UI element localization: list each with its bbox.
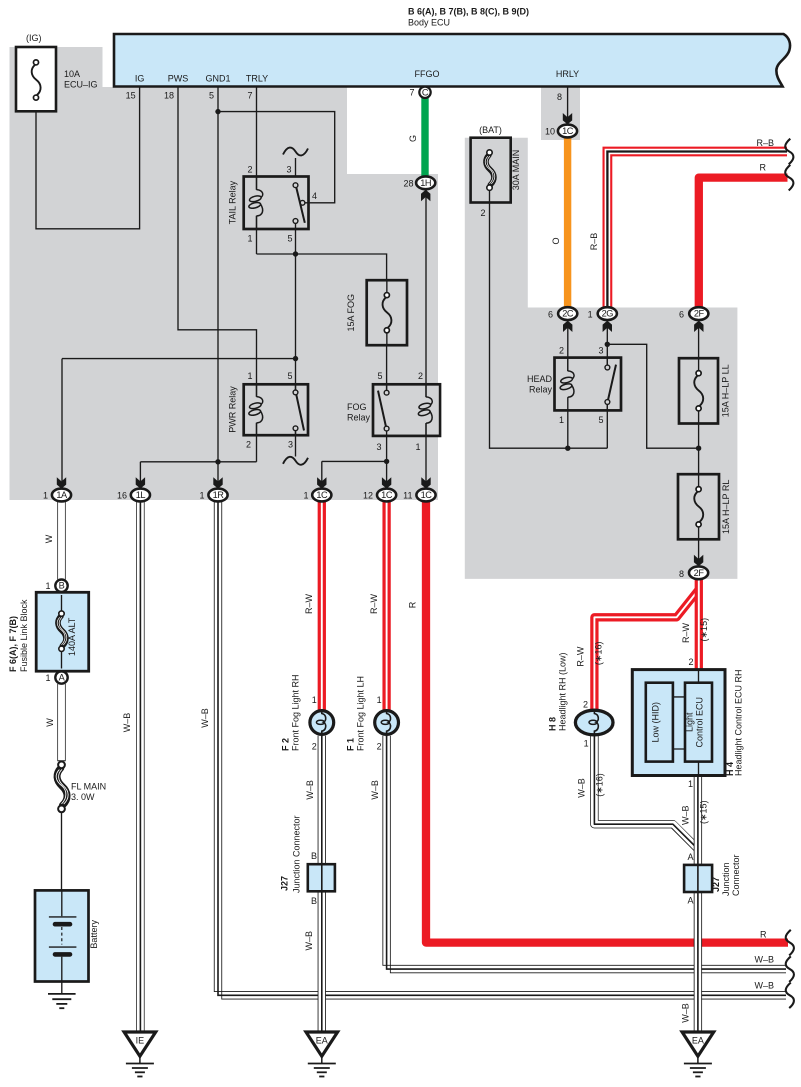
svg-text:(∗16): (∗16)	[594, 642, 604, 666]
svg-text:5: 5	[287, 371, 292, 381]
fuse 15A H-LP RL	[678, 474, 719, 539]
svg-text:A: A	[687, 852, 693, 862]
junction connector J27 right	[684, 865, 712, 892]
svg-text:Junction Connector: Junction Connector	[292, 815, 302, 893]
svg-text:Relay: Relay	[529, 385, 553, 395]
svg-text:8: 8	[557, 92, 562, 102]
shield region HRLY strip	[541, 87, 580, 140]
svg-text:1: 1	[247, 371, 252, 381]
fuse 30A MAIN	[471, 138, 511, 203]
connector 2F-8 with arrow	[689, 555, 708, 579]
wire GND1 branch to TAIL relay pin4	[218, 112, 335, 203]
relay FOG	[373, 384, 440, 436]
svg-text:1: 1	[377, 695, 382, 705]
break symbol R right edge bottom	[786, 930, 794, 956]
fuse 10A ECU-IG	[16, 47, 56, 111]
relay PWR	[244, 384, 308, 435]
svg-text:Body ECU: Body ECU	[408, 18, 450, 28]
squiggle break below PWR pin3	[283, 457, 308, 465]
wire PWS pin18 to PWR relay pin1	[178, 87, 257, 397]
svg-text:11: 11	[403, 491, 412, 501]
connector 1H with arrow	[416, 176, 435, 201]
svg-text:5: 5	[209, 91, 214, 101]
svg-text:Low (HID): Low (HID)	[651, 702, 661, 743]
wire HEAD relay pin2 to 2C	[567, 322, 569, 372]
svg-text:1: 1	[584, 739, 589, 749]
svg-text:TAIL Relay: TAIL Relay	[228, 180, 238, 224]
wire 15A FOG fuse to FOG relay pin5	[386, 345, 388, 390]
wire TAIL junction to 15A FOG fuse	[257, 254, 387, 280]
Body ECU block B6/B7/B8/B9	[114, 7, 790, 87]
svg-text:Control ECU: Control ECU	[695, 697, 705, 748]
svg-text:5: 5	[377, 371, 382, 381]
svg-text:ECU–IG: ECU–IG	[64, 80, 98, 90]
svg-text:2: 2	[583, 700, 588, 710]
svg-text:28: 28	[403, 179, 413, 189]
node PWR pin5 junction	[293, 356, 298, 361]
svg-text:W–B: W–B	[305, 780, 315, 800]
squiggle break above TAIL pin3	[283, 148, 308, 156]
svg-text:2: 2	[559, 346, 564, 356]
svg-text:HEAD: HEAD	[527, 374, 553, 384]
svg-text:2C: 2C	[562, 309, 574, 319]
svg-text:HRLY: HRLY	[556, 69, 579, 79]
svg-text:8: 8	[679, 569, 684, 579]
ground IE	[124, 1032, 156, 1077]
wire TAIL relay pin1 down	[256, 216, 258, 254]
wire PWR relay pin3 stub	[295, 431, 297, 457]
svg-text:F 2: F 2	[281, 738, 291, 751]
wire W fusible link to FL MAIN	[57, 683, 65, 761]
wire HRLY pin8 stub	[567, 87, 569, 118]
connector 1C-11 with arrow	[416, 477, 435, 501]
svg-text:3: 3	[286, 165, 291, 175]
svg-text:Junction: Junction	[721, 862, 731, 896]
svg-text:2: 2	[418, 371, 423, 381]
wire W-B 1L to IE ground	[136, 500, 144, 1033]
node GND1 branch junction	[215, 109, 220, 114]
svg-text:15: 15	[126, 91, 136, 101]
wire W-B horizontal 1 (fog LH ground to right edge)	[383, 736, 786, 973]
svg-text:Headlight Control ECU RH: Headlight Control ECU RH	[734, 669, 744, 776]
svg-text:R–B: R–B	[589, 233, 599, 251]
wire junction column to PWR pin5	[295, 254, 297, 390]
svg-text:1: 1	[45, 673, 50, 683]
wire HEAD relay pin1 down	[567, 410, 569, 448]
svg-text:W–B: W–B	[370, 780, 380, 800]
svg-text:O: O	[551, 237, 561, 244]
fuse 15A H-LP LL	[679, 358, 718, 423]
relay HEAD	[555, 358, 622, 411]
svg-text:7: 7	[409, 88, 414, 98]
svg-text:5: 5	[598, 415, 603, 425]
svg-text:1: 1	[559, 415, 564, 425]
svg-text:2G: 2G	[602, 309, 614, 319]
wire W-B *16 headlight RH ground path	[594, 735, 698, 850]
svg-text:12: 12	[363, 491, 373, 501]
junction connector J27 left	[308, 864, 335, 891]
svg-text:1: 1	[43, 491, 48, 501]
wire W 1A to fusible link block	[57, 500, 65, 581]
svg-text:1: 1	[588, 310, 593, 320]
wire R-W *16 branch to headlight RH	[594, 590, 698, 711]
svg-text:3: 3	[288, 440, 293, 450]
wire IG pin15 to fuse ECU-IG	[36, 87, 140, 229]
wire R-B 2G to right edge	[607, 152, 787, 309]
connector circle B	[55, 580, 67, 592]
svg-text:18: 18	[164, 91, 174, 101]
svg-text:PWS: PWS	[168, 74, 189, 84]
wire R-W 1C-12 to front fog light LH	[382, 501, 390, 711]
svg-text:5: 5	[287, 234, 292, 244]
svg-text:FL MAIN: FL MAIN	[71, 782, 106, 792]
svg-text:R: R	[760, 163, 767, 173]
wire FL MAIN to battery	[61, 813, 63, 891]
svg-text:30A MAIN: 30A MAIN	[511, 150, 521, 191]
svg-text:1: 1	[303, 491, 308, 501]
node HEAD pin1 junction	[565, 446, 570, 451]
wire W-B horizontal 2 (1R to right edge)	[214, 501, 786, 999]
connector 1C-12 with arrow	[377, 477, 396, 501]
svg-text:W: W	[45, 718, 55, 727]
svg-text:1: 1	[247, 234, 252, 244]
wire W-B front fog RH ground column over crossings	[318, 736, 326, 1033]
svg-text:1C: 1C	[316, 490, 328, 500]
svg-text:1: 1	[45, 581, 50, 591]
svg-text:Front Fog Light RH: Front Fog Light RH	[291, 674, 301, 751]
break symbol R right edge top	[785, 165, 793, 191]
shield region right (head relay block background)	[465, 138, 738, 579]
svg-text:Light: Light	[685, 712, 695, 732]
svg-text:1: 1	[312, 695, 317, 705]
svg-text:R: R	[408, 601, 418, 608]
svg-text:EA: EA	[316, 1036, 328, 1046]
wire R-W *15 2F-8 to H4	[695, 579, 703, 670]
connector 1A with arrow	[52, 477, 71, 501]
svg-text:2: 2	[312, 742, 317, 752]
break symbol W-B right edge 2	[786, 983, 794, 1009]
wire 15A H-LP RL to 2F-8	[698, 539, 700, 566]
break symbol R-B right edge	[785, 139, 793, 165]
wire PWR pin2 to 1L	[140, 461, 256, 463]
headlight control ECU H4 box	[632, 670, 725, 776]
svg-text:FFGO: FFGO	[415, 69, 440, 79]
svg-text:W–B: W–B	[122, 713, 132, 733]
connector 2G with arrow	[598, 307, 617, 332]
wire O orange 1C-10 to 2C	[564, 137, 571, 308]
svg-text:B 6(A), B 7(B), B 8(C), B 9(D): B 6(A), B 7(B), B 8(C), B 9(D)	[408, 7, 529, 17]
svg-text:1L: 1L	[136, 490, 146, 500]
svg-text:(∗15): (∗15)	[699, 800, 709, 824]
svg-text:R–W: R–W	[576, 646, 586, 667]
wire TAIL relay pin5 down	[295, 223, 297, 254]
svg-text:2: 2	[377, 742, 382, 752]
svg-text:Headlight RH (Low): Headlight RH (Low)	[558, 652, 568, 731]
svg-text:R–W: R–W	[369, 593, 379, 614]
wire R 1C-11 to right edge	[426, 501, 788, 943]
svg-text:2F: 2F	[694, 309, 705, 319]
ground EA right	[682, 1032, 714, 1077]
svg-text:1: 1	[688, 779, 693, 789]
ground below battery	[48, 994, 76, 1008]
wire 30A MAIN to HEAD relay pins1,5	[490, 203, 608, 449]
svg-text:W–B: W–B	[754, 955, 774, 965]
connector 2F with arrow	[689, 307, 708, 332]
svg-text:W–B: W–B	[576, 778, 586, 798]
svg-text:1: 1	[199, 491, 204, 501]
battery	[35, 890, 89, 981]
svg-text:6: 6	[548, 310, 553, 320]
svg-text:IG: IG	[135, 74, 145, 84]
wire to connector 1A	[62, 359, 296, 483]
wire 2F to 15A H-LP LL	[698, 322, 700, 359]
connector 1C-1 with arrow	[312, 477, 331, 501]
svg-text:15A FOG: 15A FOG	[346, 294, 356, 332]
svg-text:EA: EA	[692, 1036, 704, 1046]
break symbol W-B right edge 1	[786, 956, 794, 982]
svg-text:B: B	[311, 896, 317, 906]
svg-text:2: 2	[247, 165, 252, 175]
node HEAD pin3 junction	[605, 342, 610, 347]
wire 1L drop	[139, 462, 141, 483]
svg-text:W–B: W–B	[680, 805, 690, 825]
svg-text:2: 2	[480, 208, 485, 218]
node 1R junction	[215, 459, 220, 464]
wire R-W 1C-1 to front fog light RH	[318, 501, 326, 711]
node H-LP fuse column junction	[696, 446, 701, 451]
svg-text:Fusible Link Block: Fusible Link Block	[19, 599, 29, 672]
svg-text:R–B: R–B	[756, 138, 774, 148]
svg-text:TRLY: TRLY	[246, 74, 268, 84]
svg-text:A: A	[687, 896, 693, 906]
connector 1R with arrow	[208, 477, 227, 501]
svg-text:16: 16	[117, 491, 127, 501]
wire GND1 pin5 vertical	[217, 87, 219, 462]
svg-text:W–B: W–B	[304, 931, 314, 951]
svg-text:2: 2	[246, 440, 251, 450]
svg-text:1: 1	[415, 442, 420, 452]
svg-text:3: 3	[598, 346, 603, 356]
wire W-B *15 H4 ground column over crossings	[694, 776, 702, 1033]
svg-text:B: B	[59, 581, 65, 591]
node FOG pin3 junction	[384, 459, 389, 464]
svg-text:(∗15): (∗15)	[699, 618, 709, 642]
svg-text:1C: 1C	[421, 490, 433, 500]
node TAIL pin5 junction	[293, 251, 298, 256]
wire HEAD pin3 branch to H-LP fuse column	[607, 344, 698, 448]
svg-text:15A H–LP RL: 15A H–LP RL	[721, 480, 731, 534]
wire 1R drop	[217, 462, 219, 483]
svg-text:R: R	[760, 930, 767, 940]
svg-text:15A H–LP LL: 15A H–LP LL	[721, 364, 731, 417]
svg-text:(IG): (IG)	[26, 33, 42, 43]
front fog light RH F2 bulb	[310, 709, 334, 737]
wire fusible link block internals	[61, 592, 63, 671]
svg-text:1R: 1R	[213, 490, 225, 500]
connector 1L with arrow	[131, 477, 150, 501]
svg-text:3. 0W: 3. 0W	[71, 792, 95, 802]
wire 15A H-LP LL to 15A H-LP RL	[698, 424, 700, 475]
wire H4 internal top	[698, 670, 700, 683]
svg-text:1A: 1A	[56, 490, 68, 500]
svg-text:IE: IE	[136, 1036, 145, 1046]
svg-text:H 8: H 8	[548, 717, 558, 731]
svg-text:F 6(A), F 7(B): F 6(A), F 7(B)	[8, 616, 18, 672]
svg-text:Battery: Battery	[89, 920, 99, 949]
svg-text:Connector: Connector	[731, 854, 741, 896]
wire H4 internal bottom	[698, 762, 700, 776]
relay TAIL	[244, 177, 309, 230]
ground EA left	[306, 1032, 338, 1077]
wire battery to ground	[61, 982, 63, 994]
svg-text:6: 6	[679, 310, 684, 320]
svg-text:R–W: R–W	[681, 622, 691, 643]
svg-text:4: 4	[312, 191, 317, 201]
wire FOG relay pin1 to 1C-11	[425, 423, 427, 483]
svg-text:1H: 1H	[420, 178, 431, 188]
fusible link FL MAIN 3.0W	[56, 761, 68, 812]
svg-text:10: 10	[545, 127, 555, 137]
svg-text:W–B: W–B	[200, 708, 210, 728]
svg-text:J27: J27	[280, 876, 290, 891]
wire H4 internal links	[673, 697, 685, 749]
headlight RH low H8 bulb	[575, 710, 613, 736]
svg-text:W–B: W–B	[680, 1003, 690, 1023]
wire G green FFGO to 1H	[421, 98, 428, 178]
fusible link block F6/F7	[36, 592, 88, 671]
svg-text:(BAT): (BAT)	[479, 125, 502, 135]
junction dots	[215, 109, 701, 465]
svg-text:PWR Relay: PWR Relay	[228, 386, 238, 433]
svg-text:2: 2	[688, 657, 693, 667]
wire 1H to FOG relay pin2	[425, 190, 427, 397]
svg-text:1C: 1C	[562, 126, 574, 136]
svg-text:C: C	[422, 87, 429, 97]
svg-text:G: G	[408, 135, 418, 142]
svg-text:J27: J27	[711, 877, 721, 892]
wire FOG relay pin3 to 1C-1 and 1C-12	[322, 436, 387, 483]
fuse 15A FOG	[367, 280, 407, 345]
wire TAIL relay pin3 stub	[295, 158, 297, 177]
wire HEAD relay pin5 down	[606, 404, 608, 448]
wire TRLY pin7 to TAIL relay pin2	[256, 87, 258, 190]
svg-text:GND1: GND1	[205, 74, 230, 84]
connector 2C with arrow	[558, 307, 577, 332]
svg-text:140A ALT: 140A ALT	[67, 617, 77, 656]
svg-text:F 1: F 1	[346, 738, 356, 751]
svg-text:1C: 1C	[381, 490, 393, 500]
svg-text:2F: 2F	[694, 568, 705, 578]
wire PWR relay pin2 down	[256, 423, 258, 462]
svg-text:10A: 10A	[64, 69, 80, 79]
connector 1C-10 with arrow	[558, 113, 577, 137]
svg-text:3: 3	[376, 442, 381, 452]
svg-text:Front Fog Light LH: Front Fog Light LH	[356, 676, 366, 751]
svg-text:(∗16): (∗16)	[594, 773, 604, 797]
connector circle C (FFGO)	[419, 87, 430, 98]
svg-text:W–B: W–B	[754, 981, 774, 991]
svg-text:Relay: Relay	[347, 413, 371, 423]
svg-text:R–W: R–W	[304, 593, 314, 614]
shield region left (relay block background)	[10, 47, 439, 500]
svg-text:B: B	[311, 851, 317, 861]
front fog light LH F1 bulb	[375, 709, 399, 737]
svg-text:W: W	[44, 534, 54, 543]
svg-text:7: 7	[247, 91, 252, 101]
wire HEAD relay pin3 to 2G	[606, 322, 608, 366]
wire R thick 2F to right edge	[699, 178, 788, 309]
svg-text:FOG: FOG	[347, 402, 367, 412]
connector circle A	[55, 671, 67, 683]
